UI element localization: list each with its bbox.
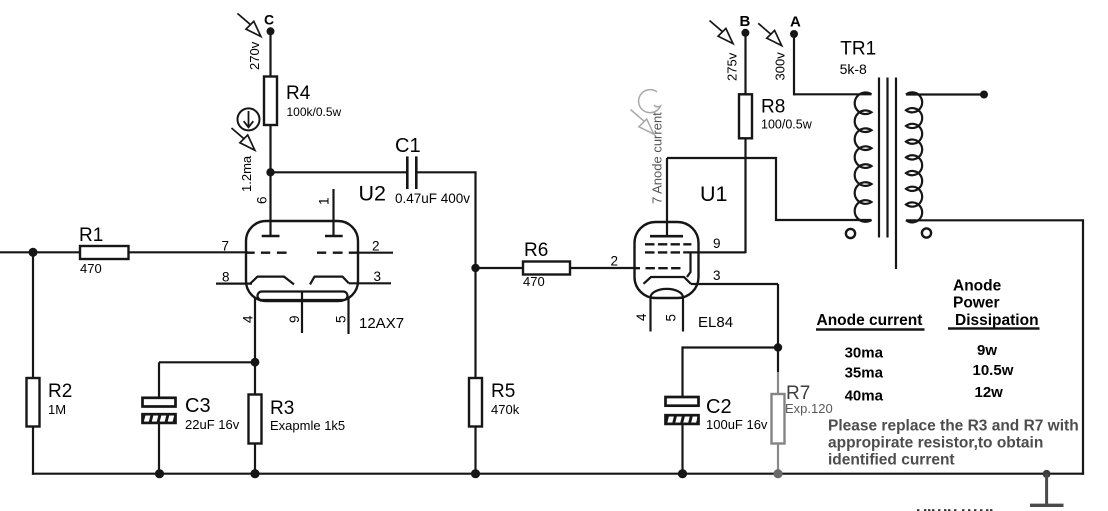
wire R2 to rail: [32, 427, 34, 475]
watermark remnant: [917, 509, 992, 511]
transformer core: [879, 78, 896, 270]
wire input left: [0, 251, 80, 253]
svg-text:Dissipation: Dissipation: [955, 312, 1039, 329]
table anode current header: [817, 278, 1039, 330]
pin 4 lead U2 down to R3: [254, 298, 256, 395]
svg-text:R2: R2: [48, 381, 72, 402]
note text: [828, 418, 1079, 469]
svg-text:100uF 16v: 100uF 16v: [706, 417, 768, 432]
svg-text:9: 9: [287, 315, 302, 323]
node input junction: [29, 248, 38, 257]
node C: [264, 12, 275, 36]
node pin4 junction: [251, 358, 260, 367]
transformer TR1 secondary winding: [906, 92, 922, 222]
node A: [790, 14, 801, 39]
svg-text:22uF 16v: 22uF 16v: [185, 417, 240, 432]
svg-text:U2: U2: [359, 182, 386, 206]
svg-text:B: B: [740, 13, 751, 30]
svg-text:7 Anode current: 7 Anode current: [650, 112, 665, 204]
U1 heater dome: [651, 289, 684, 298]
wire pin3 down to cathode node: [777, 284, 779, 348]
svg-text:12AX7: 12AX7: [359, 315, 404, 332]
pin 8 lead U2: [216, 283, 252, 285]
svg-text:9w: 9w: [977, 342, 997, 359]
U2 heater: [258, 292, 348, 301]
wire C3 branch horizontal: [159, 361, 255, 363]
table underline left: [816, 328, 925, 330]
U1 g1 dashes: [635, 267, 681, 269]
pin 4 lead U1: [649, 298, 651, 332]
svg-text:A: A: [790, 14, 801, 31]
wire R3 to rail: [254, 444, 256, 475]
U1 anode plate: [650, 235, 683, 238]
svg-text:2: 2: [611, 254, 619, 269]
svg-text:0.47uF 400v: 0.47uF 400v: [395, 191, 470, 206]
node B: [740, 13, 751, 37]
svg-text:Anode current: Anode current: [817, 312, 923, 329]
svg-text:7: 7: [222, 239, 230, 254]
U2 right grid dashes: [317, 251, 358, 253]
table values current: [845, 345, 884, 405]
wire secondary top: [906, 93, 984, 95]
svg-text:1M: 1M: [48, 402, 66, 417]
svg-text:Power: Power: [953, 295, 1000, 312]
node R3 rail junction: [250, 469, 259, 478]
node R7 rail junction: [773, 469, 782, 478]
wire R5 branch: [474, 268, 476, 378]
node R5 rail junction: [471, 469, 480, 478]
wire R5 to rail: [474, 427, 476, 475]
capacitor C1: [395, 135, 470, 206]
meter symbol current direction: [238, 108, 260, 130]
wire C2 branch: [683, 348, 779, 398]
svg-text:1.2ma: 1.2ma: [239, 155, 254, 192]
svg-text:8: 8: [222, 270, 230, 285]
wire R8 to pin9: [744, 138, 746, 253]
svg-text:4: 4: [634, 313, 649, 321]
wire primary bottom to U1 anode: [667, 158, 872, 220]
svg-text:270v: 270v: [247, 41, 262, 70]
wire R1 to U2 grid pin7: [129, 251, 249, 253]
U2 left grid dashes: [246, 251, 287, 253]
annotation scribble: [631, 90, 661, 135]
wire pin3 cathode: [691, 283, 778, 285]
svg-text:C: C: [264, 12, 274, 28]
svg-text:470: 470: [523, 274, 545, 289]
wire R4 to anode junction: [269, 125, 271, 236]
node C2 rail junction: [678, 469, 687, 478]
U2 left cathode: [250, 277, 294, 285]
svg-text:U1: U1: [700, 182, 727, 206]
wire C to R4: [269, 31, 271, 76]
svg-text:TR1: TR1: [840, 39, 876, 60]
node R6 junction: [471, 264, 479, 272]
pin 5 lead U2: [347, 298, 349, 335]
svg-text:470: 470: [80, 261, 102, 276]
svg-text:275v: 275v: [725, 52, 740, 81]
U2 right cathode: [310, 277, 349, 285]
wire A to primary top: [794, 93, 872, 95]
wire C2 to rail: [681, 424, 683, 475]
phase dot secondary: [922, 228, 931, 237]
svg-text:40ma: 40ma: [845, 388, 884, 405]
svg-text:9: 9: [713, 236, 721, 251]
transformer TR1 primary winding: [855, 92, 872, 221]
pin 3 lead U2: [349, 282, 391, 284]
svg-text:30ma: 30ma: [845, 345, 884, 362]
svg-text:35ma: 35ma: [845, 365, 884, 382]
wire B to R8: [744, 33, 746, 95]
svg-text:Anode: Anode: [953, 278, 1002, 295]
svg-text:3: 3: [374, 269, 382, 284]
wire C1 to corner: [417, 171, 477, 173]
svg-text:Please replace the R3 and R7 w: Please replace the R3 and R7 with: [828, 418, 1079, 435]
U1 internal g3 link: [687, 253, 691, 277]
U1 g3 dashes: [645, 243, 691, 245]
svg-text:5: 5: [333, 315, 348, 323]
wire node to R6: [476, 267, 524, 269]
node cathode junction U1: [774, 343, 782, 351]
arrow at node C: [237, 13, 261, 36]
arrow at node B: [710, 21, 734, 44]
pin 5 lead U1: [682, 298, 684, 332]
svg-text:4: 4: [240, 315, 255, 323]
svg-text:100k/0.5w: 100k/0.5w: [287, 105, 342, 119]
table underline right: [948, 327, 1040, 329]
wire C3 to rail: [158, 423, 160, 475]
svg-text:R8: R8: [761, 97, 785, 118]
resistor R5: [469, 378, 520, 427]
U2 right anode plate pin1: [325, 189, 343, 236]
node secondary terminal: [980, 91, 988, 99]
wire R6 to U1 pin2: [570, 267, 637, 269]
resistor R6: [523, 240, 570, 289]
U1 cathode: [644, 277, 692, 284]
arrow at meter: [232, 128, 255, 150]
wire secondary bottom to right edge: [906, 220, 1083, 474]
resistor R8: [739, 94, 813, 138]
wire bottom rail: [32, 473, 1084, 475]
wire R7 to rail: [777, 444, 779, 475]
U1 g2 dashes: [645, 251, 680, 253]
label TR1: [840, 39, 877, 78]
svg-text:R1: R1: [79, 225, 103, 246]
wire A down: [793, 34, 795, 95]
capacitor C3: [143, 395, 240, 432]
arrow at node A: [758, 23, 782, 45]
resistor R7: [772, 372, 833, 444]
svg-text:identified current: identified current: [828, 452, 955, 469]
ground: [1030, 470, 1064, 505]
wire C3 top lead: [158, 362, 160, 398]
tube U2 envelope: [246, 221, 358, 301]
svg-text:appropirate resistor,to obtain: appropirate resistor,to obtain: [828, 435, 1043, 452]
resistor R4: [264, 77, 342, 126]
svg-text:R5: R5: [491, 381, 515, 402]
wire corner down to R6 node: [474, 172, 476, 268]
resistor R2: [27, 378, 73, 427]
wire pin9 screen: [683, 251, 745, 253]
svg-text:EL84: EL84: [698, 314, 733, 331]
wire junction to C1: [271, 171, 407, 173]
svg-text:R3: R3: [270, 398, 294, 419]
tube U1 envelope: [635, 222, 699, 298]
capacitor C2: [666, 396, 768, 432]
node anode junction U2: [266, 168, 274, 176]
wire R7 top: [777, 348, 779, 373]
svg-text:C2: C2: [706, 396, 732, 418]
svg-text:R4: R4: [286, 83, 311, 104]
phase dot primary: [846, 229, 855, 238]
svg-text:1: 1: [317, 197, 332, 205]
svg-text:470k: 470k: [491, 402, 520, 417]
U2 left anode plate pin6: [262, 235, 280, 238]
svg-text:12w: 12w: [975, 384, 1004, 401]
svg-text:100/0.5w: 100/0.5w: [761, 118, 813, 132]
svg-text:C3: C3: [185, 395, 211, 417]
svg-text:C1: C1: [395, 135, 421, 157]
svg-text:5k-8: 5k-8: [840, 61, 867, 77]
wire R2 branch down: [32, 252, 34, 378]
svg-text:3: 3: [713, 268, 721, 283]
pin 2 lead U2: [358, 252, 393, 254]
svg-text:6: 6: [255, 196, 270, 204]
svg-text:5: 5: [664, 314, 679, 322]
pin 9 lead U2: [301, 291, 303, 333]
svg-text:300v: 300v: [773, 52, 788, 81]
table values power: [973, 342, 1014, 401]
svg-text:Exapmle 1k5: Exapmle 1k5: [270, 418, 345, 433]
node C3 rail junction: [155, 469, 164, 478]
svg-text:2: 2: [372, 239, 380, 254]
svg-text:10.5w: 10.5w: [973, 362, 1014, 379]
wire pin7 anode up: [666, 158, 668, 236]
svg-text:Exp.120: Exp.120: [785, 401, 833, 416]
svg-text:R6: R6: [524, 240, 548, 261]
resistor R3: [249, 395, 346, 444]
resistor R1: [79, 225, 129, 276]
